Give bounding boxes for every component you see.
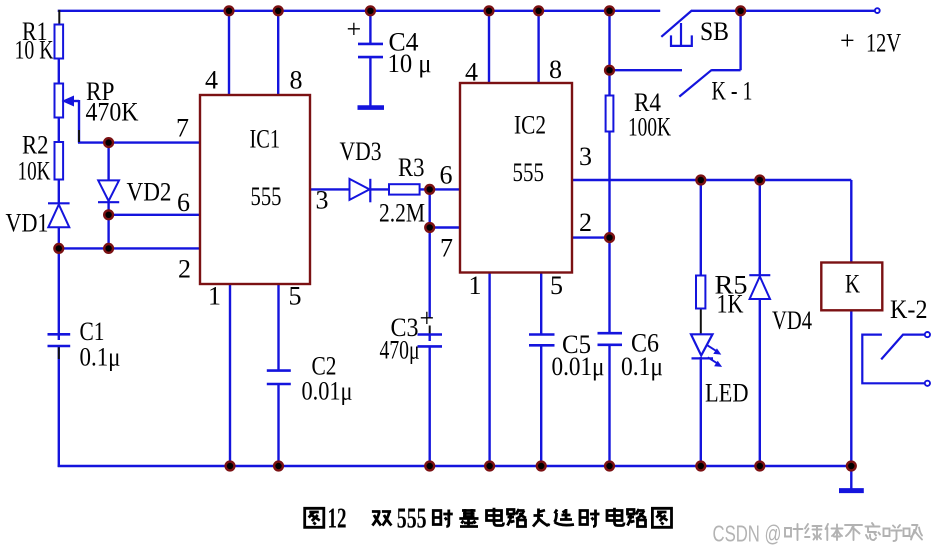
svg-text:8: 8 (290, 66, 303, 95)
wire: C2 bottom lead (277, 384, 279, 466)
capacitor C3 plate top (418, 333, 443, 336)
capacitor C6 plate bottom (598, 343, 623, 346)
wire: IC1 pin1 lead (229, 284, 231, 466)
wire: IC2 pin1 lead (488, 273, 490, 467)
caption char: lu (circuit) 2 (628, 509, 647, 527)
svg-text:6: 6 (177, 188, 190, 217)
junction dot: pin3 rail / R5 (696, 176, 705, 185)
caption char: dian (electric) 2 (607, 508, 624, 526)
svg-text:10K: 10K (18, 157, 51, 186)
wire: IC1 pin8 lead (277, 11, 279, 95)
svg-text:12: 12 (328, 503, 347, 535)
potentiometer RP wiper arrow (64, 97, 75, 105)
LED light arrow 1 (707, 345, 716, 351)
junction dot: ground rail / LED (696, 462, 705, 471)
junction dot: top rail / IC2 pin4 (485, 6, 494, 15)
capacitor C4 bottom terminal bar (358, 105, 385, 110)
junction dot: IC2 pin2 / R4 line (605, 233, 614, 242)
watermark char: hu (call) (884, 525, 902, 541)
wire: left chain R1-RP lead (58, 57, 60, 84)
switch K-1 blade (679, 70, 712, 97)
junction dot: ground rail / IC1 pin1 (226, 462, 235, 471)
svg-text:K - 1: K - 1 (712, 77, 753, 106)
svg-text:K: K (845, 270, 860, 299)
resistor R5 (696, 276, 705, 309)
svg-text:100K: 100K (628, 113, 671, 142)
wire: C3 inter-plate stub (429, 334, 431, 341)
svg-text:6: 6 (440, 161, 453, 190)
svg-text:R2: R2 (22, 131, 49, 160)
svg-text:5: 5 (550, 271, 563, 300)
contact K-2 blade (881, 335, 925, 360)
svg-text:1: 1 (469, 271, 482, 300)
LED cathode bar (692, 357, 714, 359)
junction dot: IC2 pin7 node (425, 223, 434, 232)
junction dot: ground rail / IC2 pin1 (485, 462, 494, 471)
diode VD4 (triangle, pointing up) (750, 276, 770, 299)
caption char: shi (hour) (433, 510, 453, 527)
resistor R2 (55, 142, 64, 180)
junction dot: R4 top / K-1 branch (605, 66, 614, 75)
junction dot: ground rail / C6 (605, 462, 614, 471)
wire: node down to C3 (overshoot) (429, 228, 431, 319)
wire: ground stem (850, 466, 852, 489)
wire: +12V top rail (right of SB to terminal) (691, 10, 875, 12)
diode VD4 (cathode bar) (749, 274, 770, 276)
wire: node down to C1 top plate (with overshoot) (58, 248, 60, 340)
junction dot: top rail / R4 (605, 6, 614, 15)
junction dot: ground rail / K (847, 462, 856, 471)
caption char: ji (base) (459, 509, 478, 527)
svg-text:0.1μ: 0.1μ (621, 352, 663, 381)
wire: IC1 pin3 output (310, 188, 350, 190)
black lead artifact: C3 above top plate (429, 326, 431, 335)
wire: C4 bottom lead (369, 57, 371, 106)
svg-text:2.2M: 2.2M (379, 199, 425, 228)
wire: IC1 pin7 horizontal (78, 141, 200, 143)
junction dot: ground rail / C2 (274, 462, 283, 471)
junction dot: top rail / IC2 pin8 (534, 6, 543, 15)
caption char: tu (figure) 2 (652, 508, 671, 527)
junction dot: ground rail / C5 (537, 462, 546, 471)
svg-text:555: 555 (513, 158, 545, 187)
svg-text:1K: 1K (717, 290, 744, 319)
wire: IC2 pin8 lead (537, 11, 539, 83)
LED light arrow 2 (708, 357, 718, 363)
svg-text:IC1: IC1 (250, 125, 281, 154)
wire: VD1 to pin2 node (58, 227, 60, 248)
svg-text:5: 5 (289, 282, 302, 311)
wire: R4 bottom through pin2 node (608, 131, 610, 333)
wire: RP-R2 lead (58, 117, 60, 143)
black lead artifact: R5 to LED (700, 309, 702, 335)
svg-text:555: 555 (251, 182, 282, 211)
svg-text:2: 2 (178, 255, 191, 284)
op-amp/timer IC1 box (200, 95, 310, 284)
timer IC2 box (460, 83, 572, 273)
potentiometer RP body (55, 84, 64, 118)
svg-text:470K: 470K (86, 98, 139, 127)
capacitor C6 plate top (598, 332, 623, 335)
watermark char: xi (breathe) (904, 525, 923, 540)
svg-text:2: 2 (579, 208, 592, 237)
junction dot: pin7 wire / VD2 (104, 138, 113, 147)
wire: VD4 bottom lead (759, 299, 761, 466)
capacitor C4 plate top (358, 43, 383, 46)
svg-text:8: 8 (549, 55, 562, 84)
wire: C4 top lead (369, 11, 371, 44)
wire: node branch down to pin7 wire (429, 189, 431, 227)
svg-text:10 μ: 10 μ (388, 49, 432, 78)
svg-text:3: 3 (579, 142, 592, 171)
relay K box (821, 263, 882, 311)
junction dot: top rail / IC1 pin8 (274, 6, 283, 15)
capacitor C2 plate bottom (267, 383, 291, 386)
diode VD3 (triangle, pointing right) (350, 179, 370, 200)
svg-text:7: 7 (176, 114, 189, 143)
svg-text:CSDN @: CSDN @ (713, 521, 782, 547)
junction dot: pin3 rail / VD4 (755, 176, 764, 185)
resistor R3 (389, 184, 420, 194)
caption char: shi (hour) 2 (580, 510, 600, 527)
junction dot: top rail / C4 (366, 6, 375, 15)
svg-text:3: 3 (316, 186, 329, 215)
svg-text:4: 4 (205, 66, 218, 95)
svg-text:LED: LED (705, 379, 749, 408)
terminal: K-2 lower open circle (925, 381, 930, 386)
diode VD3 (cathode bar) (369, 179, 371, 203)
wire: C5 bottom lead (540, 346, 542, 467)
svg-text:10 K: 10 K (15, 36, 54, 65)
wire: IC2 pin2 horizontal (572, 236, 611, 238)
capacitor C5 plate top (529, 333, 555, 336)
svg-text:4: 4 (465, 58, 478, 87)
svg-text:0.01μ: 0.01μ (552, 352, 605, 381)
svg-text:VD3: VD3 (340, 137, 382, 166)
wire: R3 to IC2 pin6 (420, 188, 460, 190)
diode VD2 (cathode bar) (98, 201, 119, 203)
terminal: +12V open circle (875, 8, 880, 13)
watermark char: lv (green) (805, 524, 822, 540)
diode VD2 (triangle, pointing down) (98, 180, 119, 201)
junction dot: top rail / K-1 (736, 6, 745, 15)
diode VD1 (triangle, pointing up) (48, 205, 69, 228)
svg-text:470μ: 470μ (380, 336, 420, 365)
wire: IC2 pin7 horizontal (430, 226, 460, 228)
svg-text:SB: SB (700, 17, 729, 46)
wire: VD2 bottom lead to pin2 wire (107, 202, 109, 248)
junction dot: pin6 wire / VD2 (104, 210, 113, 219)
junction dot: pin2 wire / VD2 (104, 244, 113, 253)
svg-text:+: + (347, 15, 362, 44)
svg-text:+: + (840, 26, 855, 55)
watermark char: bu (not) (845, 525, 862, 540)
caption char: lu (circuit) (508, 509, 527, 527)
wire: VD4 top lead (759, 180, 761, 276)
svg-text:12V: 12V (866, 29, 901, 58)
wire: IC1 pin2 horizontal (59, 247, 200, 249)
svg-text:VD4: VD4 (772, 306, 812, 335)
caption char: tu (figure) (305, 508, 324, 527)
capacitor C3 plate bottom (418, 345, 443, 348)
svg-text:R3: R3 (398, 153, 425, 182)
svg-text:VD2: VD2 (127, 178, 172, 207)
svg-text:+: + (420, 304, 435, 333)
capacitor C2 plate top (267, 369, 291, 372)
wire: IC1 pin5 lead / C2 top (277, 284, 279, 371)
wire: R4 top lead from +12V rail (608, 11, 610, 96)
resistor R4 (606, 96, 614, 132)
wire: RP wiper vertical (78, 100, 80, 143)
svg-text:K-2: K-2 (890, 295, 928, 324)
caption char: yan (delay) (555, 509, 575, 525)
junction dot: ground rail / VD4 (755, 462, 764, 471)
wire: VD3 to R3 (370, 188, 389, 190)
diode VD1 (cathode bar) (48, 202, 70, 204)
caption char: chang (long) (533, 509, 549, 527)
svg-text:0.01μ: 0.01μ (302, 377, 353, 406)
wire: LED bottom to ground rail (700, 357, 702, 466)
wire: K-1 right side horizontal (712, 69, 741, 71)
wire: K coil bottom lead (850, 310, 852, 466)
svg-text:0.1μ: 0.1μ (80, 343, 121, 372)
wire: C1 bottom to ground rail (58, 346, 60, 467)
resistor R1 (55, 25, 64, 59)
capacitor C1 plate top (48, 333, 71, 336)
capacitor C5 plate bottom (529, 344, 555, 347)
wire: RP wiper horizontal (66, 100, 79, 102)
wire: C6 bottom lead (608, 345, 610, 467)
terminal: K-2 upper open circle (925, 332, 930, 337)
capacitor C1 plate bottom (48, 345, 71, 348)
wire: IC2 pin5 lead / C5 (540, 273, 542, 335)
black lead artifact: RP wiper bottom (78, 130, 80, 142)
caption char: dian (electric) (487, 508, 504, 526)
LED triangle (pointing down) (691, 334, 713, 355)
svg-text:7: 7 (440, 234, 453, 263)
wire: IC1 pin4 lead (228, 11, 230, 95)
watermark char: wang (forget) (866, 523, 881, 540)
svg-text:IC2: IC2 (514, 111, 546, 140)
black lead artifact: C1 bottom stub (58, 347, 60, 359)
ground bar (839, 488, 864, 493)
svg-text:1: 1 (208, 282, 221, 311)
watermark char: ti (body) (826, 524, 843, 540)
junction dot: top rail / IC1 pin4 (225, 6, 234, 15)
svg-text:VD1: VD1 (6, 209, 49, 238)
switch SB pushbutton cap (671, 35, 692, 46)
caption char: shuang (double) (372, 512, 392, 526)
wire: +12V top rail (left of SB) (58, 10, 661, 12)
wire: IC1 pin6 horizontal (109, 214, 200, 216)
junction dot: pin2 wire / VD1 (54, 244, 63, 253)
wire: K coil top lead (850, 180, 852, 263)
junction dot: R3 output node (425, 185, 434, 194)
switch SB pushbutton stem (680, 23, 682, 46)
wire: IC2 pin4 lead (488, 11, 490, 83)
black lead artifact: R1 top (58, 10, 60, 25)
wire: K-1 branch horizontal from R4 top (610, 69, 683, 71)
wire: bottom ground rail (58, 465, 852, 467)
capacitor C4 plate bottom (358, 56, 383, 59)
junction dot: ground rail / C3 (425, 462, 434, 471)
switch SB blade (661, 11, 692, 37)
wire: R2-VD1 lead (58, 179, 60, 203)
svg-text:555: 555 (397, 503, 427, 535)
wire: VD2 top lead (107, 143, 109, 181)
wire: IC2 pin3 output rail (572, 179, 851, 181)
contact K-2 bracket (862, 335, 925, 384)
wire: C3 bottom lead (429, 347, 431, 467)
wire: R5 branch top (700, 180, 702, 276)
watermark char: ye (leaf) (785, 524, 803, 540)
wire: K-1 vertical to top rail (739, 11, 741, 70)
